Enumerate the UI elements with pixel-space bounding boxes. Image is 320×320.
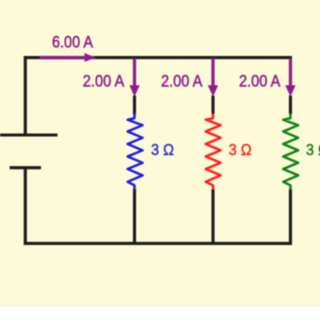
svg-text:3 Ω: 3 Ω (151, 142, 174, 159)
wire top (24, 56, 292, 59)
svg-text:3 Ω: 3 Ω (229, 142, 252, 159)
battery V1 long plate (0, 133, 58, 136)
resistor R3 (green, 3 ohm) (283, 114, 298, 190)
wire branch 3 lower (289, 189, 292, 244)
current arrow I1 (down) (129, 59, 139, 97)
wire branch 1 lower (133, 189, 136, 244)
wire left lower (24, 168, 27, 245)
resistor R1 (blue, 3 ohm) (128, 114, 143, 190)
svg-text:2.00 A: 2.00 A (161, 72, 203, 91)
resistor R2 (red, 3 ohm) (206, 114, 221, 190)
current arrow I3 (down) (285, 59, 295, 97)
current arrow I2 (down) (208, 59, 218, 97)
wire bottom (24, 242, 292, 245)
current arrow I total (horizontal) (40, 53, 96, 62)
battery V1 short plate (10, 166, 41, 169)
wire branch 2 upper (211, 96, 214, 115)
svg-text:2.00 A: 2.00 A (239, 72, 281, 91)
wire branch 2 lower (211, 189, 214, 244)
svg-text:6.00 A: 6.00 A (52, 32, 94, 51)
wire left upper (24, 56, 27, 135)
wire branch 1 upper (133, 96, 136, 115)
wire branch 3 upper (289, 96, 292, 115)
svg-text:2.00 A: 2.00 A (83, 72, 125, 91)
svg-text:3 Ω: 3 Ω (306, 142, 320, 159)
